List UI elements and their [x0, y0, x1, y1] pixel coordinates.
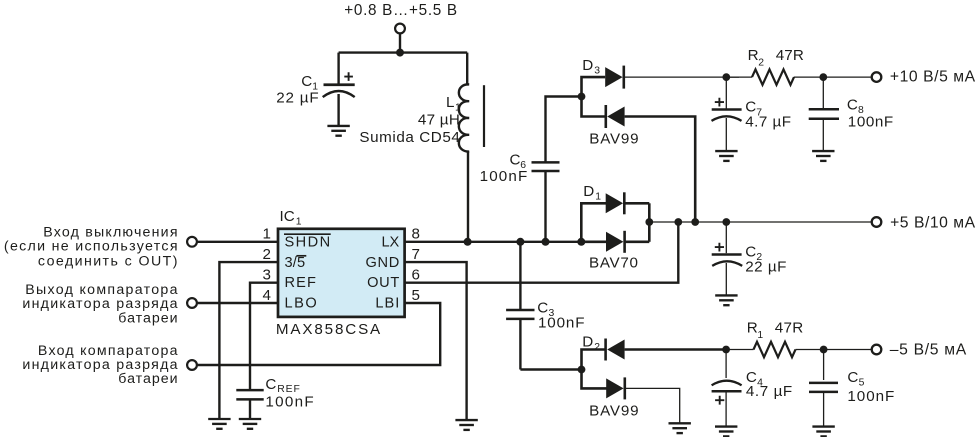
svg-text:GND: GND: [366, 255, 400, 271]
wire: [339, 51, 468, 53]
wire: [725, 350, 727, 379]
svg-text:3: 3: [594, 66, 600, 77]
svg-text:100nF: 100nF: [848, 113, 893, 130]
junction D1 out: [645, 218, 653, 226]
svg-text:L: L: [446, 94, 454, 111]
ground: [812, 427, 834, 437]
LBO output label: [22, 282, 177, 326]
junction D2 common: [578, 366, 586, 374]
svg-text:1: 1: [757, 330, 763, 341]
ground: [455, 420, 477, 430]
capacitor CREF: [236, 390, 263, 418]
svg-text:(если не используется: (если не используется: [4, 238, 178, 254]
junction D1/LX: [577, 238, 585, 246]
svg-text:22 µF: 22 µF: [745, 259, 786, 276]
wire D1 right: [648, 203, 651, 242]
svg-text:100nF: 100nF: [480, 168, 528, 185]
capacitor C7: [712, 98, 742, 151]
ground: [208, 419, 230, 429]
wire pin3: [250, 283, 278, 389]
terminal +5V output: [872, 217, 882, 227]
capacitor C8: [809, 109, 839, 151]
wire pin4: [197, 302, 278, 304]
svg-text:2: 2: [263, 246, 271, 263]
svg-text:47R: 47R: [776, 47, 804, 64]
svg-text:5: 5: [412, 287, 420, 304]
capacitor C5: [809, 383, 838, 427]
svg-text:100nF: 100nF: [265, 394, 313, 411]
svg-text:C: C: [847, 97, 858, 114]
ground: [715, 427, 737, 437]
junction OUT node: [674, 218, 682, 226]
diode D3a: [605, 66, 624, 89]
svg-text:BAV70: BAV70: [589, 255, 638, 272]
wire: [337, 53, 339, 84]
svg-text:1: 1: [296, 217, 302, 228]
capacitor C2: [712, 243, 743, 296]
IC1 body: [278, 229, 405, 317]
svg-text:6: 6: [412, 267, 420, 284]
ground: [715, 295, 737, 305]
svg-text:–5 В/5 мА: –5 В/5 мА: [890, 342, 967, 359]
capacitor C3: [506, 310, 534, 370]
ground: [239, 419, 261, 429]
svg-text:100nF: 100nF: [538, 315, 585, 332]
junction C2 node: [722, 218, 730, 226]
junction C8 node: [819, 73, 827, 81]
LBI input label: [22, 343, 177, 387]
wire: [582, 97, 608, 117]
wire: [822, 77, 824, 108]
svg-text:8: 8: [412, 226, 420, 243]
wire: [725, 77, 727, 108]
wire: [726, 349, 753, 351]
wire: [546, 97, 582, 163]
svg-text:4.7 µF: 4.7 µF: [746, 383, 792, 400]
junction L1/LX: [464, 238, 472, 246]
wire: [726, 76, 752, 78]
wire: [725, 222, 727, 253]
wire D1 bottom: [581, 241, 606, 244]
wire: [625, 117, 696, 223]
diode D1b: [606, 231, 625, 253]
svg-text:D: D: [582, 57, 593, 74]
ground: [715, 151, 737, 161]
pin label 3/5: [285, 255, 307, 271]
svg-text:BAV99: BAV99: [589, 402, 639, 419]
svg-text:LBI: LBI: [375, 296, 399, 312]
wire +5V rail: [649, 221, 871, 223]
wire D1 left: [581, 203, 606, 242]
wire D2 left: [582, 350, 606, 370]
svg-text:C: C: [847, 369, 858, 386]
junction C4 node: [722, 346, 730, 354]
resistor R1: [754, 342, 796, 357]
wire pin1: [197, 241, 278, 243]
svg-text:Sumida CD54: Sumida CD54: [359, 129, 459, 146]
svg-text:D: D: [583, 183, 594, 200]
ground: [812, 151, 834, 161]
wire C3 branch: [519, 242, 521, 310]
svg-text:47 µH: 47 µH: [418, 111, 460, 128]
svg-text:D: D: [582, 334, 593, 351]
wire: [625, 241, 650, 244]
svg-text:IC: IC: [280, 208, 295, 225]
wire: [582, 77, 606, 96]
svg-text:C: C: [265, 376, 276, 393]
diode D1a: [606, 192, 625, 214]
capacitor C1: [323, 72, 355, 126]
svg-text:+10 В/5 мА: +10 В/5 мА: [890, 69, 976, 86]
shutdown input label: [4, 225, 178, 270]
svg-text:100nF: 100nF: [847, 388, 894, 405]
svg-text:7: 7: [412, 246, 420, 263]
svg-text:LBO: LBO: [285, 296, 317, 312]
diode D2a: [606, 339, 625, 361]
junction C6/LX: [542, 238, 550, 246]
wire: [467, 151, 469, 241]
wire pin5: [197, 303, 440, 365]
terminal -5V output: [872, 345, 882, 355]
svg-text:C: C: [510, 151, 521, 168]
svg-text:соединить с OUT): соединить с OUT): [38, 253, 178, 269]
wire: [520, 368, 581, 370]
wire C6 branch: [544, 172, 546, 242]
wire: [794, 76, 872, 78]
ground: [327, 126, 349, 136]
svg-text:+5 В/10 мА: +5 В/10 мА: [890, 214, 976, 231]
svg-text:+0.8 В…+5.5 В: +0.8 В…+5.5 В: [344, 2, 457, 19]
svg-text:2: 2: [594, 342, 600, 353]
terminal shutdown input: [187, 237, 197, 247]
svg-text:1: 1: [595, 192, 601, 203]
junction D3b node: [691, 218, 699, 226]
wire: [823, 350, 825, 381]
wire pin2: [219, 262, 278, 418]
svg-text:LX: LX: [381, 235, 399, 251]
svg-text:батареи: батареи: [118, 310, 177, 326]
pin label SHDN: [284, 234, 331, 250]
svg-text:REF: REF: [285, 275, 316, 291]
diode D2b: [606, 377, 625, 399]
svg-text:3: 3: [263, 267, 271, 284]
svg-text:MAX858CSA: MAX858CSA: [276, 321, 381, 338]
terminal supply input: [395, 24, 405, 34]
svg-text:4.7 µF: 4.7 µF: [745, 114, 791, 131]
svg-text:4: 4: [263, 287, 271, 304]
capacitor C4: [712, 381, 742, 427]
svg-text:3/5: 3/5: [285, 255, 306, 271]
junction C3/LX: [516, 238, 524, 246]
svg-text:OUT: OUT: [367, 275, 399, 291]
svg-text:47R: 47R: [775, 320, 804, 337]
wire: [582, 370, 607, 389]
junction C5 node: [820, 346, 828, 354]
svg-text:22 µF: 22 µF: [276, 89, 318, 106]
wire: [796, 349, 872, 351]
wire: [624, 202, 649, 205]
wire: [625, 348, 727, 351]
resistor R2: [752, 69, 794, 84]
wire: [399, 34, 401, 53]
terminal LBO output: [187, 298, 197, 308]
diode D3b: [606, 105, 625, 128]
svg-text:батареи: батареи: [118, 371, 177, 387]
terminal +10V output: [872, 72, 882, 82]
svg-text:C: C: [301, 73, 312, 90]
capacitor C6: [532, 162, 560, 171]
svg-text:SHDN: SHDN: [285, 235, 331, 251]
wire +10V rail: [624, 76, 739, 78]
ground: [669, 423, 691, 433]
svg-text:1: 1: [263, 226, 271, 243]
svg-text:2: 2: [758, 58, 764, 69]
svg-text:BAV99: BAV99: [589, 130, 638, 147]
junction C7 node: [722, 73, 730, 81]
wire: [625, 388, 680, 423]
junction D3 common: [578, 93, 586, 101]
junction supply node: [396, 49, 404, 57]
svg-text:R: R: [747, 320, 758, 337]
wire LX rail: [405, 241, 582, 243]
terminal LBI input: [187, 360, 197, 370]
wire pin6 OUT: [405, 222, 679, 283]
wire pin7 GND: [405, 262, 467, 420]
inductor L1: [459, 84, 484, 151]
svg-text:R: R: [748, 47, 759, 64]
wire: [466, 53, 468, 85]
